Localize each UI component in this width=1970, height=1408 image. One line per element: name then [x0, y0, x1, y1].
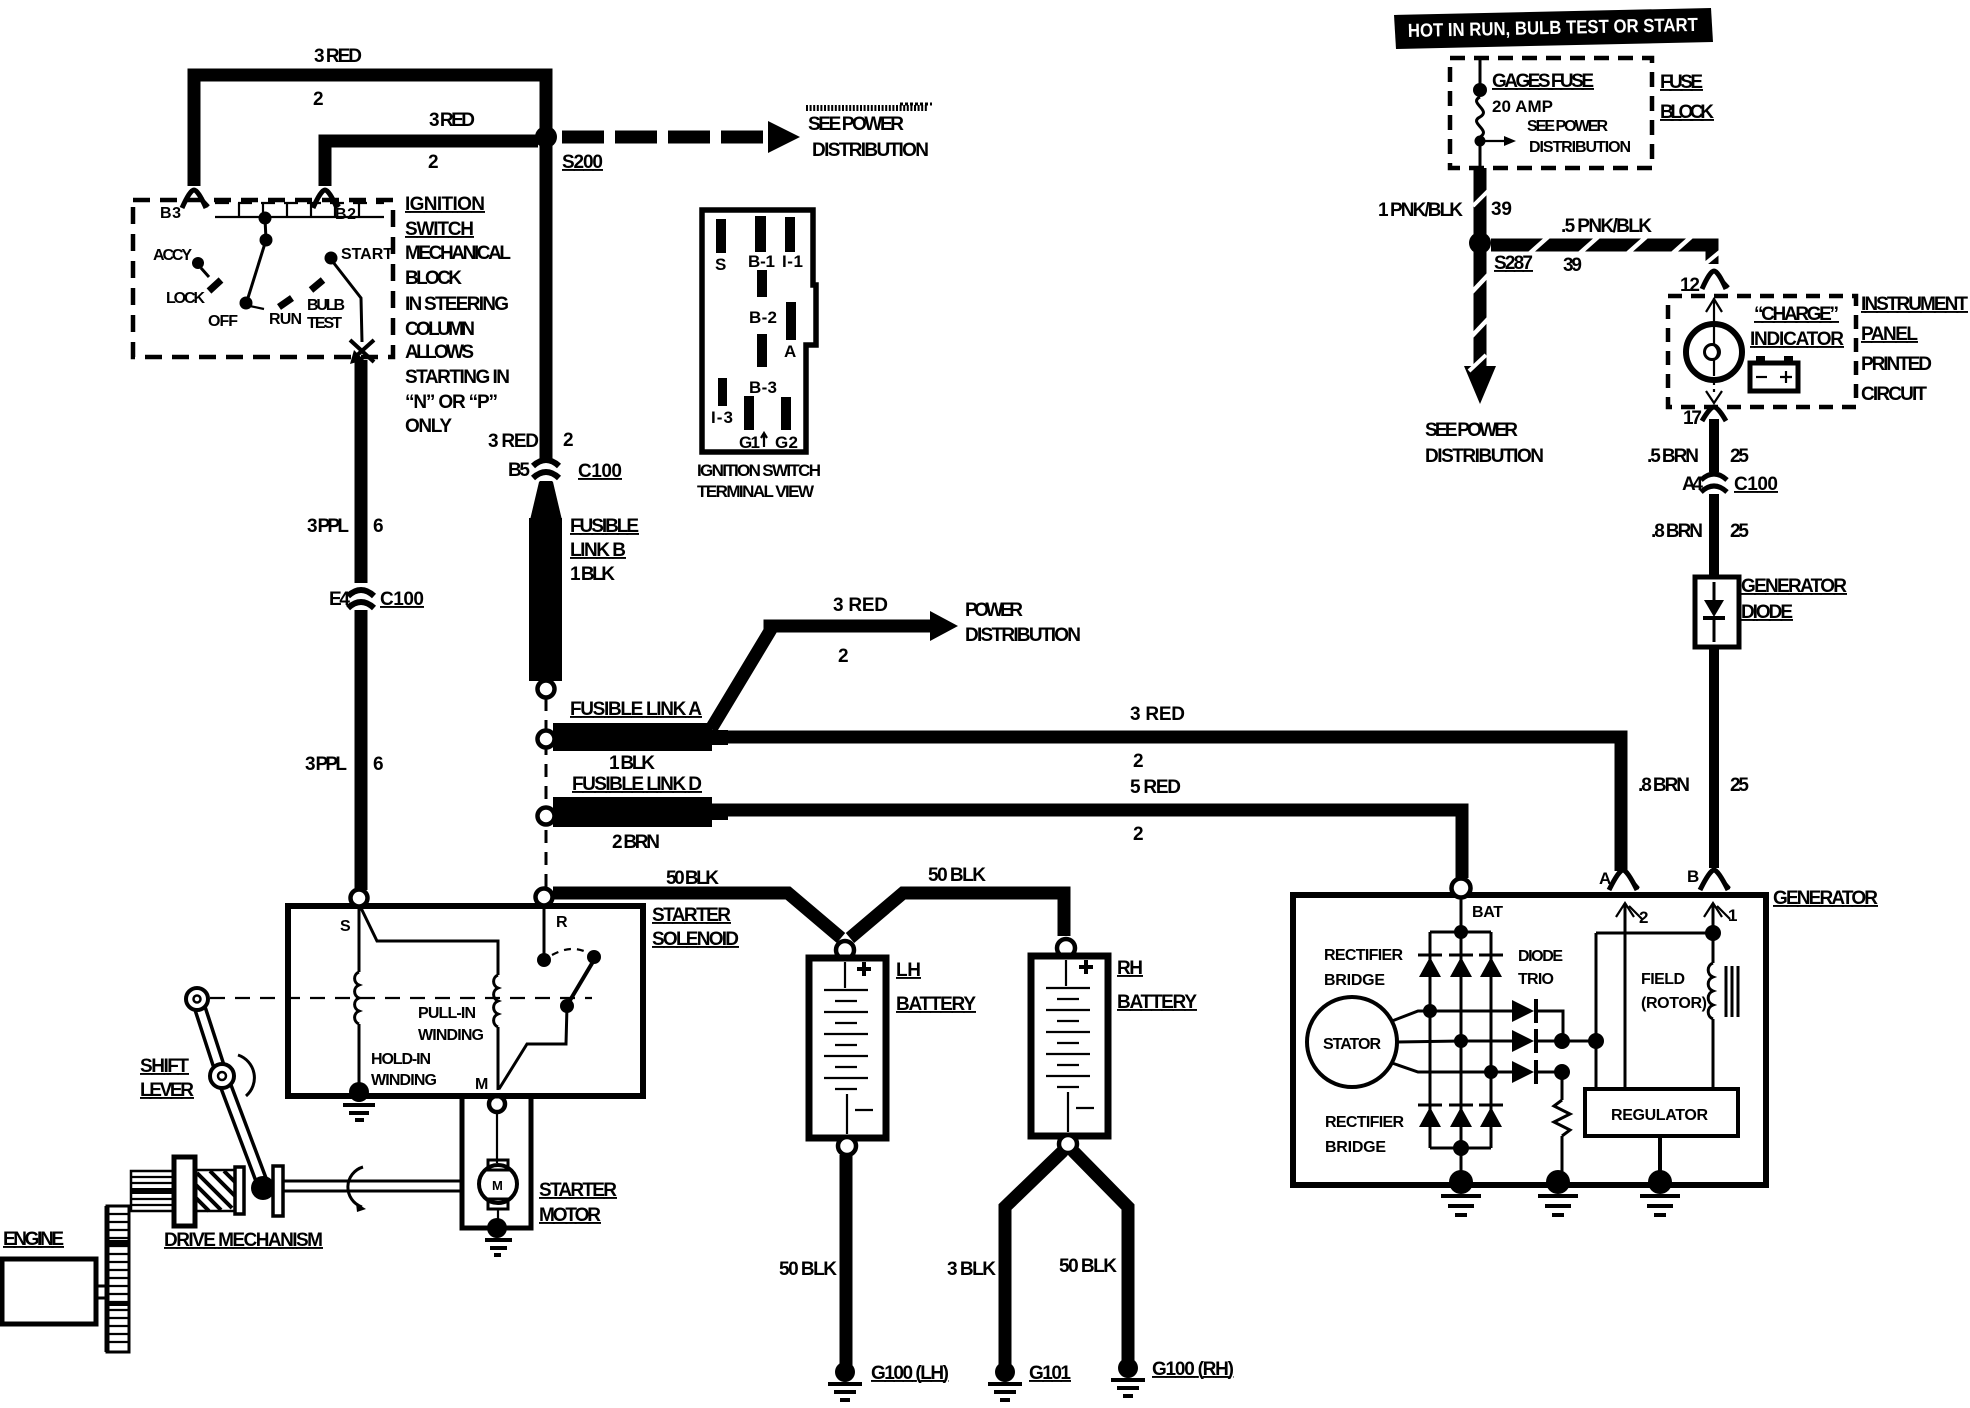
- svg-text:A: A: [1599, 869, 1611, 888]
- svg-text:B3: B3: [160, 205, 181, 222]
- diode trio 3: [1512, 1060, 1562, 1084]
- svg-text:BATTERY: BATTERY: [896, 994, 976, 1015]
- label SHIFT LEVER: [140, 1056, 194, 1101]
- connector body outline: [702, 210, 816, 452]
- svg-text:BRIDGE: BRIDGE: [1325, 1139, 1386, 1156]
- svg-text:50 BLK: 50 BLK: [928, 865, 986, 886]
- contact START: [325, 252, 338, 265]
- svg-text:GENERATOR: GENERATOR: [1741, 576, 1847, 597]
- svg-text:6: 6: [373, 516, 384, 537]
- svg-text:“N” OR “P”: “N” OR “P”: [405, 392, 498, 413]
- svg-text:12: 12: [1680, 275, 1700, 296]
- svg-text:B2: B2: [335, 206, 356, 223]
- svg-text:25: 25: [1730, 446, 1749, 467]
- pivot dashed line (shift lever to plunger): [210, 997, 592, 999]
- svg-text:STARTER: STARTER: [539, 1180, 617, 1201]
- svg-text:20 AMP: 20 AMP: [1492, 97, 1553, 116]
- svg-text:5 RED: 5 RED: [1130, 777, 1181, 798]
- rectifier bridge upper-right leg: [1490, 932, 1493, 1071]
- label FUSIBLE LINK B 1 BLK: [570, 516, 639, 585]
- connector C100 E4 (double chevron): [348, 590, 374, 608]
- svg-text:BATTERY: BATTERY: [1117, 992, 1197, 1013]
- svg-text:2: 2: [428, 152, 439, 173]
- contact BULB TEST: [311, 280, 323, 290]
- wire terminal1 to regulator bus: [1596, 932, 1713, 935]
- ground G100 (LH): [828, 1362, 862, 1400]
- starter motor ground lead: [497, 1209, 499, 1222]
- svg-text:FIELD: FIELD: [1641, 971, 1685, 988]
- scan noise streak: [806, 104, 932, 108]
- svg-text:C100: C100: [380, 589, 424, 610]
- svg-text:MECHANICAL: MECHANICAL: [405, 243, 511, 264]
- svg-text:INSTRUMENT: INSTRUMENT: [1861, 294, 1968, 315]
- node fuse bottom tap: [1475, 136, 1486, 147]
- label RECTIFIER BRIDGE (upper): [1324, 947, 1403, 989]
- rectifier bridge upper-left leg: [1429, 932, 1432, 1010]
- node diode trio out 3: [1554, 1064, 1570, 1080]
- wire 1 PNK/BLK (striped): [1473, 168, 1489, 234]
- wire fuse to block bottom: [1479, 145, 1482, 166]
- svg-text:E4: E4: [329, 589, 350, 610]
- label SEE POWER DISTRIBUTION (bottom): [1425, 420, 1544, 467]
- wire 3 BLK to G101: [1005, 1151, 1063, 1366]
- svg-text:IN STEERING: IN STEERING: [405, 294, 509, 315]
- terminal LH battery -: [838, 1137, 856, 1155]
- wire BAT bus: [1430, 897, 1491, 932]
- ignition switch wiper pivot: [247, 212, 273, 302]
- wire dashed bus to R terminal: [545, 698, 548, 888]
- svg-text:IGNITION SWITCH: IGNITION SWITCH: [697, 461, 821, 480]
- label INSTRUMENT PANEL PRINTED CIRCUIT: [1861, 294, 1968, 405]
- pin B-3: [757, 334, 767, 367]
- wire START to output: [333, 262, 362, 342]
- svg-text:ONLY: ONLY: [405, 416, 452, 437]
- connector C100 B5 (double chevron): [533, 460, 559, 478]
- node diode trio out 2: [1588, 1033, 1604, 1049]
- svg-text:1 BLK: 1 BLK: [570, 564, 615, 585]
- terminal RH battery +: [1057, 939, 1075, 957]
- ground G100 (RH): [1111, 1358, 1145, 1396]
- svg-text:BLOCK: BLOCK: [405, 268, 462, 289]
- svg-text:ACCY: ACCY: [153, 247, 192, 264]
- svg-text:S: S: [715, 255, 726, 274]
- pin I-3: [718, 378, 727, 406]
- terminal B3 chevron: [182, 190, 209, 208]
- wire see power distribution tap arrow: [1484, 136, 1516, 146]
- wire dashed to see power distribution: [562, 121, 800, 153]
- svg-text:25: 25: [1730, 775, 1749, 796]
- contact ACCY: [192, 257, 209, 277]
- node fusible link D tap: [538, 808, 555, 825]
- svg-text:B5: B5: [508, 460, 530, 481]
- label STARTER MOTOR: [539, 1180, 617, 1226]
- node below fusible link B: [538, 681, 555, 698]
- svg-text:BULB: BULB: [307, 297, 345, 314]
- node bottom bus: [1453, 1140, 1469, 1156]
- label DIODE TRIO: [1518, 948, 1563, 988]
- engine flywheel ring gear: [107, 1206, 129, 1352]
- svg-text:FUSIBLE: FUSIBLE: [570, 516, 639, 537]
- LH battery box: [809, 958, 886, 1138]
- svg-text:17: 17: [1683, 408, 1702, 429]
- solenoid switch R contact: [537, 905, 551, 967]
- terminal BAT: [1452, 879, 1471, 898]
- svg-text:M: M: [475, 1076, 488, 1093]
- svg-text:6: 6: [373, 754, 384, 775]
- svg-text:G100 (LH): G100 (LH): [871, 1363, 949, 1384]
- ground generator resistor: [1538, 1170, 1578, 1215]
- svg-text:M: M: [492, 1178, 503, 1193]
- svg-text:FUSIBLE LINK D: FUSIBLE LINK D: [572, 774, 702, 795]
- diode trio 1: [1512, 999, 1563, 1041]
- svg-text:HOLD-IN: HOLD-IN: [371, 1051, 431, 1068]
- label "CHARGE" INDICATOR: [1750, 304, 1844, 350]
- RH battery box: [1031, 956, 1108, 1136]
- svg-text:DRIVE MECHANISM: DRIVE MECHANISM: [164, 1230, 323, 1251]
- svg-text:FUSE: FUSE: [1660, 72, 1703, 93]
- svg-text:I-1: I-1: [782, 252, 803, 271]
- svg-text:WINDING: WINDING: [371, 1072, 437, 1089]
- starter motor brush top: [488, 1160, 508, 1170]
- field (rotor) winding: [1708, 933, 1738, 1089]
- wire 3 PPL (ignition to solenoid S) upper: [355, 360, 368, 583]
- label POWER DISTRIBUTION: [965, 600, 1081, 646]
- wire bus to ground: [1460, 1148, 1463, 1176]
- wire into bulb (arrow up): [1706, 298, 1722, 345]
- wire regulator to ground: [1658, 1136, 1662, 1176]
- engine crank stub: [96, 1286, 107, 1298]
- svg-text:1 PNK/BLK: 1 PNK/BLK: [1378, 200, 1463, 221]
- terminal 2 lead (inside): [1616, 903, 1642, 1089]
- svg-text:S200: S200: [562, 152, 603, 173]
- svg-text:SEE POWER: SEE POWER: [1527, 118, 1608, 135]
- svg-text:3 RED: 3 RED: [314, 46, 362, 67]
- generator diode symbol: [1703, 582, 1725, 642]
- label IGNITION SWITCH MECHANICAL BLOCK text: [405, 194, 511, 437]
- label FIELD (ROTOR): [1641, 971, 1707, 1012]
- svg-text:C100: C100: [578, 461, 622, 482]
- label IGNITION SWITCH TERMINAL VIEW: [697, 461, 821, 501]
- svg-text:STARTING IN: STARTING IN: [405, 367, 510, 388]
- connector X arrow (start feed): [350, 340, 374, 364]
- wire 50 BLK LH battery ground: [840, 1155, 853, 1366]
- svg-text:TEST: TEST: [307, 315, 342, 332]
- svg-text:R: R: [556, 914, 568, 931]
- svg-text:2: 2: [563, 430, 574, 451]
- pin G1: [744, 396, 754, 430]
- ignition switch contact strip: [215, 203, 384, 217]
- node fuse top: [1473, 83, 1487, 97]
- engine box: [2, 1259, 96, 1324]
- shift lever pivot middle: [210, 1055, 254, 1096]
- wire 3 RED (fusible link A to generator A): [712, 737, 1621, 871]
- svg-text:2: 2: [1133, 751, 1144, 772]
- wire .8 BRN upper: [1709, 494, 1719, 577]
- label LH BATTERY: [896, 960, 976, 1015]
- terminal 17 chevron: [1702, 407, 1726, 421]
- terminal R: [536, 889, 553, 906]
- svg-text:2: 2: [838, 646, 849, 667]
- svg-text:LOCK: LOCK: [166, 290, 205, 307]
- ground generator rectifier: [1441, 1170, 1481, 1215]
- terminal RH battery -: [1059, 1135, 1077, 1153]
- starter motor box: [462, 1096, 531, 1228]
- diode rectifier top 2: [1449, 955, 1473, 977]
- svg-text:DISTRIBUTION: DISTRIBUTION: [965, 625, 1081, 646]
- wire 50 BLK (LH battery to RH battery): [850, 893, 1064, 938]
- svg-text:3 BLK: 3 BLK: [947, 1259, 996, 1280]
- wire bulb to 17 (dashed with down arrow): [1706, 380, 1722, 403]
- terminal B2 chevron: [313, 190, 340, 208]
- svg-text:STATOR: STATOR: [1323, 1036, 1381, 1053]
- shift lever pivot top: [186, 988, 208, 1010]
- wire .5 BRN: [1709, 419, 1719, 472]
- "CHARGE" indicator bulb: [1686, 324, 1742, 380]
- shift lever arm upper: [197, 999, 222, 1076]
- svg-text:IGNITION: IGNITION: [405, 194, 485, 215]
- svg-text:2: 2: [1639, 908, 1648, 927]
- wire fuse feed (node on fuse block): [1479, 60, 1482, 90]
- starter motor armature M: [479, 1165, 517, 1203]
- rectifier bridge upper-middle leg: [1460, 932, 1463, 1040]
- diode rectifier bottom 3: [1479, 1072, 1503, 1148]
- starter motor brush bottom: [488, 1199, 508, 1209]
- wire main feed lower segment below C100: [540, 481, 553, 520]
- svg-text:BLOCK: BLOCK: [1660, 102, 1714, 123]
- label RH BATTERY: [1117, 958, 1197, 1013]
- svg-text:G100 (RH): G100 (RH): [1152, 1359, 1234, 1380]
- wire S287 down (striped) to see power distribution: [1464, 252, 1496, 404]
- svg-text:LEVER: LEVER: [140, 1080, 194, 1101]
- svg-text:S287: S287: [1494, 253, 1533, 274]
- label RECTIFIER BRIDGE (lower): [1325, 1114, 1404, 1156]
- terminal 1 lead (inside): [1704, 903, 1730, 933]
- label FUSE BLOCK: [1660, 72, 1714, 123]
- drive mechanism ball joint: [251, 1176, 275, 1200]
- svg-text:POWER: POWER: [965, 600, 1023, 621]
- svg-text:(ROTOR): (ROTOR): [1641, 995, 1707, 1012]
- drive mechanism T plate: [273, 1166, 283, 1216]
- label SEE POWER DISTRIBUTION (top middle): [808, 114, 929, 161]
- svg-text:3 RED: 3 RED: [488, 431, 539, 452]
- fuse GAGES 20A (symbol): [1477, 97, 1484, 137]
- svg-text:CIRCUIT: CIRCUIT: [1861, 384, 1927, 405]
- starter solenoid box: [288, 906, 643, 1096]
- svg-text:3 RED: 3 RED: [429, 110, 475, 131]
- node S200: [535, 126, 557, 148]
- wire 50 BLK to G100 (RH): [1073, 1151, 1128, 1362]
- label GENERATOR DIODE: [1741, 576, 1847, 623]
- node field top: [1705, 925, 1721, 941]
- svg-text:ALLOWS: ALLOWS: [405, 342, 474, 363]
- pin I-1: [785, 217, 795, 252]
- svg-text:50 BLK: 50 BLK: [666, 868, 719, 889]
- svg-text:WINDING: WINDING: [418, 1027, 484, 1044]
- svg-text:.8 BRN: .8 BRN: [1638, 775, 1690, 796]
- svg-text:LH: LH: [896, 960, 921, 981]
- connector C100 A4 (double chevron): [1701, 474, 1727, 492]
- drive mechanism rotation arc: [348, 1167, 366, 1212]
- wire 5 RED (fusible link D to generator BAT): [712, 810, 1462, 878]
- label PULL-IN WINDING: [418, 1005, 484, 1044]
- pin G1 arrow tick: [761, 433, 767, 447]
- contact RUN: [279, 298, 292, 307]
- RH battery cells: [1046, 960, 1094, 1132]
- svg-text:3 PPL: 3 PPL: [307, 516, 349, 537]
- svg-text:B: B: [1687, 867, 1699, 886]
- wire field sense (1596): [1595, 933, 1598, 1089]
- svg-text:GENERATOR: GENERATOR: [1773, 888, 1878, 909]
- solenoid switch dashed link: [552, 949, 588, 955]
- svg-text:RECTIFIER: RECTIFIER: [1325, 1114, 1404, 1131]
- solenoid switch movable contact: [499, 950, 601, 1089]
- svg-text:S: S: [340, 918, 351, 935]
- ground solenoid (hold-in): [343, 1082, 375, 1120]
- generator box: [1293, 895, 1766, 1185]
- ground starter motor: [485, 1218, 512, 1255]
- drive mechanism screw shaft (hatched): [195, 1170, 235, 1211]
- svg-text:.8 BRN: .8 BRN: [1651, 521, 1703, 542]
- svg-text:I-3: I-3: [711, 408, 733, 427]
- svg-text:RECTIFIER: RECTIFIER: [1324, 947, 1403, 964]
- wire 50 BLK (solenoid R to LH battery): [553, 893, 841, 938]
- svg-text:DISTRIBUTION: DISTRIBUTION: [1425, 446, 1544, 467]
- RH battery + mark: [1079, 960, 1093, 974]
- diode rectifier top 1: [1418, 955, 1442, 977]
- svg-text:B-1: B-1: [748, 252, 775, 271]
- terminal B chevron: [1700, 870, 1730, 890]
- pin G2: [781, 397, 791, 430]
- LH battery cells: [824, 962, 873, 1134]
- drive mechanism shaft: [283, 1181, 462, 1191]
- svg-text:DIODE: DIODE: [1741, 602, 1793, 623]
- diode rectifier bottom 2: [1449, 1041, 1473, 1148]
- svg-text:SHIFT: SHIFT: [140, 1056, 189, 1077]
- diode rectifier top 3: [1479, 955, 1503, 977]
- svg-text:PRINTED: PRINTED: [1861, 354, 1932, 375]
- svg-text:ENGINE: ENGINE: [3, 1229, 64, 1250]
- generator diode box: [1695, 577, 1739, 647]
- wire .5 PNK/BLK (striped, to instrument panel): [1491, 237, 1722, 264]
- svg-text:“CHARGE”: “CHARGE”: [1754, 304, 1839, 325]
- ground G101: [988, 1362, 1022, 1400]
- svg-text:PANEL: PANEL: [1861, 324, 1918, 345]
- svg-text:3 RED: 3 RED: [1130, 704, 1185, 725]
- stator circle: [1307, 997, 1397, 1087]
- svg-text:B-2: B-2: [749, 308, 777, 327]
- wire .8 BRN lower (to generator B): [1709, 647, 1719, 868]
- svg-text:LINK B: LINK B: [570, 540, 626, 561]
- ground generator regulator: [1640, 1170, 1680, 1215]
- svg-text:START: START: [341, 246, 393, 263]
- svg-text:BAT: BAT: [1472, 904, 1503, 921]
- regulator box: [1585, 1089, 1738, 1136]
- label HOLD-IN WINDING: [371, 1051, 437, 1089]
- svg-text:INDICATOR: INDICATOR: [1750, 329, 1844, 350]
- fuse block dashed box: [1450, 58, 1652, 168]
- ignition switch dashed box: [133, 200, 393, 357]
- svg-text:BRIDGE: BRIDGE: [1324, 972, 1385, 989]
- node BAT junction: [1454, 925, 1468, 939]
- svg-text:50 BLK: 50 BLK: [779, 1259, 837, 1280]
- svg-text:RH: RH: [1117, 958, 1143, 979]
- diode rectifier bottom 1: [1418, 1010, 1442, 1148]
- svg-text:RUN: RUN: [269, 311, 302, 328]
- resistor (diode trio bleed): [1554, 1072, 1570, 1176]
- svg-text:COLUMN: COLUMN: [405, 319, 475, 340]
- svg-text:OFF: OFF: [208, 313, 238, 330]
- battery icon (printed circuit): [1750, 356, 1798, 391]
- svg-text:G101: G101: [1029, 1363, 1071, 1384]
- svg-text:G1: G1: [739, 433, 760, 452]
- svg-text:2: 2: [1133, 824, 1144, 845]
- wire 3 RED branch to power distribution arrow: [711, 611, 958, 729]
- wire 3 RED (B2 branch): [325, 141, 538, 186]
- svg-text:A: A: [784, 342, 796, 361]
- svg-text:GAGES FUSE: GAGES FUSE: [1492, 71, 1594, 92]
- svg-text:SOLENOID: SOLENOID: [652, 929, 739, 950]
- svg-text:SEE POWER: SEE POWER: [808, 114, 904, 135]
- svg-text:3 RED: 3 RED: [833, 595, 888, 616]
- instrument panel printed circuit dashed box: [1668, 296, 1856, 407]
- node S287: [1469, 232, 1491, 254]
- label SEE POWER DISTRIBUTION (fuse block): [1527, 118, 1631, 156]
- svg-text:.5 BRN: .5 BRN: [1647, 446, 1699, 467]
- node stator tap 2: [1454, 1034, 1468, 1048]
- svg-text:MOTOR: MOTOR: [539, 1205, 601, 1226]
- svg-text:1: 1: [1728, 906, 1737, 925]
- svg-text:DISTRIBUTION: DISTRIBUTION: [812, 140, 929, 161]
- svg-text:SEE POWER: SEE POWER: [1425, 420, 1518, 441]
- node diode trio out 1: [1554, 1033, 1570, 1049]
- svg-text:3 PPL: 3 PPL: [305, 754, 347, 775]
- node stator tap 1: [1423, 1004, 1437, 1018]
- label BULB TEST: [307, 297, 345, 332]
- svg-text:G2: G2: [775, 433, 798, 452]
- terminal 12 chevron: [1702, 271, 1726, 289]
- drive mechanism flange plate: [174, 1157, 195, 1226]
- pin B-1: [755, 216, 766, 252]
- shift lever arm lower: [222, 1076, 263, 1185]
- svg-text:STARTER: STARTER: [652, 905, 731, 926]
- svg-text:TRIO: TRIO: [1518, 971, 1554, 988]
- svg-text:C100: C100: [1734, 474, 1778, 495]
- node stator tap 3: [1484, 1065, 1498, 1079]
- stator lead 2: [1397, 1041, 1512, 1042]
- svg-text:B-3: B-3: [749, 378, 777, 397]
- drive mechanism collar plate: [235, 1167, 244, 1214]
- pin B-2: [757, 270, 767, 297]
- svg-text:25: 25: [1730, 521, 1749, 542]
- svg-text:50 BLK: 50 BLK: [1059, 1256, 1117, 1277]
- terminal LH battery +: [836, 941, 854, 959]
- svg-text:DIODE: DIODE: [1518, 948, 1563, 965]
- svg-text:.5 PNK/BLK: .5 PNK/BLK: [1561, 216, 1652, 237]
- svg-text:DISTRIBUTION: DISTRIBUTION: [1529, 139, 1631, 156]
- LH battery + mark: [857, 962, 871, 976]
- hold-in winding: [355, 906, 359, 1086]
- fusible link D: [553, 797, 728, 827]
- svg-text:1 BLK: 1 BLK: [609, 753, 655, 774]
- svg-text:REGULATOR: REGULATOR: [1611, 1107, 1708, 1124]
- svg-text:2: 2: [313, 89, 324, 110]
- label STARTER SOLENOID: [652, 905, 739, 950]
- wire 3 RED (B3 branch + main feed down to fusible link B): [194, 75, 546, 459]
- stator lead 1: [1392, 1011, 1512, 1021]
- starter motor wire from M: [496, 1112, 498, 1163]
- svg-text:FUSIBLE LINK A: FUSIBLE LINK A: [570, 699, 702, 720]
- contact OFF: [240, 297, 265, 310]
